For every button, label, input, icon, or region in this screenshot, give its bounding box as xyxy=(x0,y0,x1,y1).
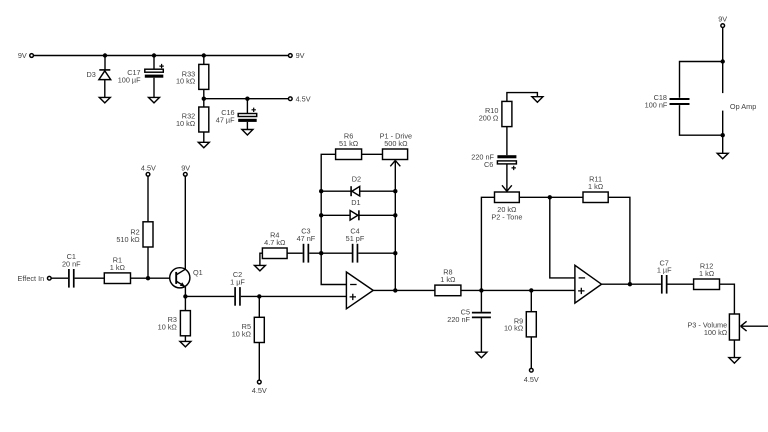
wire op-amp V+ supply xyxy=(722,28,724,93)
svg-text:1 kΩ: 1 kΩ xyxy=(588,182,604,191)
svg-text:9V: 9V xyxy=(181,164,190,173)
node 4.5V terminal below R9 xyxy=(524,368,539,383)
wire C3 to C4 xyxy=(309,252,352,254)
node 4.5V terminal above R2 xyxy=(141,164,156,177)
junction R33/R32 4.5V rail xyxy=(202,97,206,101)
junction U2 output/R11 rail xyxy=(628,282,632,286)
diode D3 xyxy=(86,56,110,98)
wire op-amp V- supply xyxy=(722,111,724,154)
transistor Q1 xyxy=(170,268,203,288)
wire R11 to U2 output xyxy=(608,197,630,284)
wire 9V to Q1 collector xyxy=(184,176,186,269)
resistor R12 1 kOhm xyxy=(694,262,720,290)
ground below R4 xyxy=(254,265,265,271)
junction C18 bottom xyxy=(721,133,725,137)
svg-text:51 kΩ: 51 kΩ xyxy=(339,139,359,148)
svg-text:1 kΩ: 1 kΩ xyxy=(699,269,715,278)
capacitor C18 100 nF xyxy=(645,93,690,109)
op-amp U1 xyxy=(346,272,373,309)
wire C1 to R1 xyxy=(75,277,105,279)
svg-text:4.5V: 4.5V xyxy=(524,375,539,384)
svg-text:1 kΩ: 1 kΩ xyxy=(440,275,456,284)
capacitor C4 51 pF xyxy=(346,227,365,263)
resistor R4 4.7 kOhm xyxy=(260,230,303,265)
wire R1 to Q1 base xyxy=(131,277,170,279)
wire C18 top branch xyxy=(680,62,723,98)
svg-text:D1: D1 xyxy=(351,198,360,207)
svg-text:4.5V: 4.5V xyxy=(296,94,311,103)
diode D1 xyxy=(321,198,395,220)
capacitor C16 47 uF xyxy=(216,99,257,130)
wire U2 inverting input rail xyxy=(550,197,575,278)
wire 9V rail xyxy=(34,55,289,57)
svg-text:1 kΩ: 1 kΩ xyxy=(110,263,126,272)
junction R5 node xyxy=(257,294,261,298)
svg-text:220 nF: 220 nF xyxy=(447,315,470,324)
op-amp U2 xyxy=(575,265,602,303)
potentiometer P1 - Drive 500 kOhm xyxy=(380,132,412,167)
capacitor C6 220 nF (polarized) xyxy=(471,152,516,170)
wire feedback right rail (P1 wiper) xyxy=(394,160,396,290)
potentiometer P2 - Tone 20 kOhm xyxy=(491,192,522,221)
node 4.5V terminal below R5 xyxy=(252,380,267,395)
resistor R11 1 kOhm xyxy=(583,175,608,203)
svg-text:100 nF: 100 nF xyxy=(645,101,668,110)
svg-text:10 kΩ: 10 kΩ xyxy=(232,330,252,339)
node 9V terminal above Q1 xyxy=(181,164,190,177)
junction D1 right xyxy=(393,213,397,217)
junction D1 left xyxy=(319,213,323,217)
resistor R33 10 kOhm xyxy=(176,56,209,99)
capacitor C2 1 uF xyxy=(230,270,245,306)
capacitor C3 47 nF xyxy=(297,227,316,263)
resistor R1 1 kOhm xyxy=(104,255,130,283)
ground below R3 xyxy=(180,341,191,347)
junction C18 top xyxy=(721,59,725,63)
wire C6 to P2 wiper arrow xyxy=(502,164,512,191)
wire C4 to right rail xyxy=(358,252,395,254)
svg-text:500 kΩ: 500 kΩ xyxy=(384,139,408,148)
svg-text:D3: D3 xyxy=(86,70,95,79)
capacitor C17 100 uF xyxy=(118,56,164,98)
ground below C5 xyxy=(476,352,487,358)
ground below C16 xyxy=(242,130,253,136)
junction U1 output/right rail xyxy=(393,288,397,292)
node 9V terminal top right xyxy=(718,14,727,27)
node 9V left terminal xyxy=(18,51,34,60)
svg-text:100 µF: 100 µF xyxy=(118,75,141,84)
svg-text:9V: 9V xyxy=(718,14,727,23)
ground below P3 xyxy=(729,358,740,364)
ground above R10 xyxy=(507,93,543,103)
svg-text:510 kΩ: 510 kΩ xyxy=(116,235,140,244)
potentiometer P3 - Volume 100 kOhm xyxy=(687,314,768,358)
svg-text:4.5V: 4.5V xyxy=(141,164,156,173)
svg-text:P2 - Tone: P2 - Tone xyxy=(491,212,522,221)
resistor R32 10 kOhm xyxy=(176,99,209,143)
wire U1 output xyxy=(373,289,435,291)
junction D3/9V rail xyxy=(103,53,107,57)
svg-text:Op Amp: Op Amp xyxy=(730,102,756,111)
wire 4.5V rail xyxy=(204,98,288,100)
junction D2 left xyxy=(319,189,323,193)
node 9V right terminal xyxy=(288,51,304,60)
node 4.5V right terminal xyxy=(288,94,310,103)
capacitor C7 1 uF xyxy=(657,258,672,293)
wire Effect In to C1 xyxy=(51,277,68,279)
wire R12 to P3 xyxy=(720,284,735,314)
diode D2 xyxy=(321,174,395,196)
wire emitter to C2 xyxy=(185,295,234,297)
wire U2 output xyxy=(602,283,661,285)
resistor R6 51 kOhm xyxy=(336,132,383,160)
junction emitter node xyxy=(183,294,187,298)
svg-text:10 kΩ: 10 kΩ xyxy=(158,323,178,332)
wire Q1 emitter down xyxy=(184,287,186,297)
junction C4/right rail xyxy=(393,251,397,255)
resistor R8 1 kOhm xyxy=(435,268,461,296)
svg-text:4.5V: 4.5V xyxy=(252,386,267,395)
junction C17/9V rail xyxy=(152,53,156,57)
svg-text:200 Ω: 200 Ω xyxy=(479,113,499,122)
svg-text:C6: C6 xyxy=(484,160,493,169)
junction C16/4.5V rail xyxy=(245,97,249,101)
svg-text:9V: 9V xyxy=(18,51,27,60)
capacitor C5 220 nF xyxy=(447,290,491,352)
junction R33/9V rail xyxy=(202,53,206,57)
svg-text:Q1: Q1 xyxy=(193,268,203,277)
wire feedback left rail xyxy=(321,154,346,284)
ground below R32 xyxy=(198,142,209,148)
wire C7 to R12 xyxy=(668,283,694,285)
junction D2 right xyxy=(393,189,397,193)
junction R2/base xyxy=(146,276,150,280)
svg-text:1 µF: 1 µF xyxy=(657,266,672,275)
wire P2 to R11 xyxy=(519,196,583,198)
resistor R3 10 kOhm xyxy=(158,296,191,341)
svg-text:51 pF: 51 pF xyxy=(346,234,365,243)
ground below op-amp supply xyxy=(717,153,728,159)
ground below C17 xyxy=(149,97,160,103)
svg-text:47 µF: 47 µF xyxy=(216,115,235,124)
svg-text:100 kΩ: 100 kΩ xyxy=(704,328,728,337)
junction C5/P2 rail xyxy=(479,288,483,292)
svg-text:10 kΩ: 10 kΩ xyxy=(504,324,524,333)
resistor R9 10 kOhm xyxy=(504,290,536,368)
svg-text:20 nF: 20 nF xyxy=(62,259,81,268)
svg-text:10 kΩ: 10 kΩ xyxy=(176,77,196,86)
svg-text:47 nF: 47 nF xyxy=(297,234,316,243)
svg-text:Effect In: Effect In xyxy=(18,274,45,283)
svg-text:10 kΩ: 10 kΩ xyxy=(176,119,196,128)
resistor R2 510 kOhm xyxy=(116,176,153,278)
svg-text:D2: D2 xyxy=(352,174,361,183)
junction R9 xyxy=(529,288,533,292)
svg-text:4.7 kΩ: 4.7 kΩ xyxy=(264,238,286,247)
junction C3/left rail xyxy=(319,251,323,255)
resistor R5 10 kOhm xyxy=(232,296,265,380)
node Effect In terminal xyxy=(18,274,52,283)
junction P2/R11/U2 - rail xyxy=(548,195,552,199)
svg-text:9V: 9V xyxy=(296,51,305,60)
capacitor C1 20 nF xyxy=(62,252,81,288)
wire C18 bottom branch xyxy=(680,105,723,135)
wire P2 left rail xyxy=(481,197,494,290)
svg-text:1 µF: 1 µF xyxy=(230,278,245,287)
wire R8 to U2 + input xyxy=(461,289,575,291)
resistor R10 200 Ohm xyxy=(479,101,512,155)
ground below D3 xyxy=(99,97,110,103)
wire C2 to op-amp + input xyxy=(241,295,347,297)
